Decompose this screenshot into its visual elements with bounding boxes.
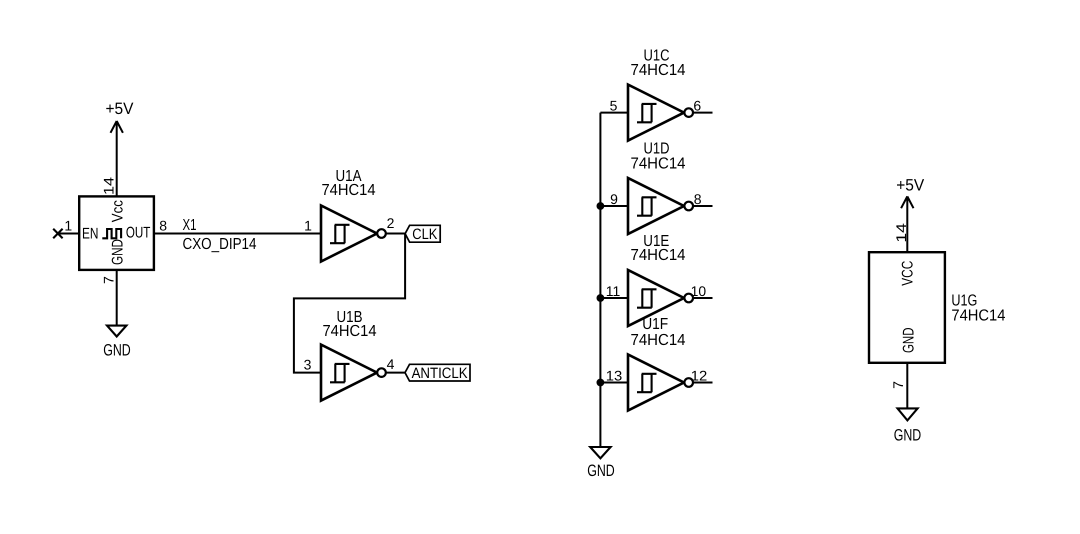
schmitt hysteresis mark U1B <box>330 364 350 382</box>
wire U1B output to ANTICLK <box>386 372 405 374</box>
svg-text:11: 11 <box>606 283 621 299</box>
svg-text:9: 9 <box>610 191 618 207</box>
inverter U1D <box>610 141 702 234</box>
svg-text:GND: GND <box>587 462 615 480</box>
wire U1A output to CLK <box>386 233 405 235</box>
wire U1E output stub <box>693 297 713 299</box>
svg-text:1: 1 <box>64 217 72 233</box>
svg-text:6: 6 <box>693 97 701 113</box>
wire stub to U1E input <box>600 297 628 299</box>
schmitt hysteresis mark U1F <box>637 374 657 392</box>
svg-text:Vcc: Vcc <box>109 200 126 222</box>
inverter U1E <box>606 233 707 326</box>
oscillator waveform glyph <box>102 229 121 238</box>
svg-text:+5V: +5V <box>896 176 924 194</box>
svg-text:EN: EN <box>82 226 99 243</box>
svg-text:5: 5 <box>610 97 618 113</box>
svg-text:4: 4 <box>387 356 395 372</box>
power arrow <box>901 196 913 252</box>
junction at U1D input <box>597 202 605 210</box>
svg-text:GND: GND <box>894 426 922 444</box>
junction at U1F input <box>597 379 605 387</box>
svg-text:GND: GND <box>900 328 917 354</box>
svg-text:GND: GND <box>109 239 126 265</box>
no-connect X on pin 1 <box>53 229 62 238</box>
inverter U1B <box>304 309 395 401</box>
svg-text:8: 8 <box>159 218 167 234</box>
global label CLK <box>405 225 440 243</box>
svg-text:8: 8 <box>694 191 702 207</box>
svg-text:X1: X1 <box>183 217 197 234</box>
wire U1C output stub <box>693 112 713 114</box>
svg-text:74HC14: 74HC14 <box>631 62 686 79</box>
svg-text:ANTICLK: ANTICLK <box>412 365 468 382</box>
svg-text:74HC14: 74HC14 <box>631 332 686 349</box>
svg-text:GND: GND <box>103 341 131 359</box>
oscillator X1 box <box>79 196 154 270</box>
svg-text:OUT: OUT <box>126 225 151 242</box>
svg-text:14: 14 <box>893 223 909 243</box>
output inversion bubble U1C <box>684 108 693 117</box>
ground symbol (right) <box>894 408 922 444</box>
wire stub to U1C input <box>600 112 628 114</box>
svg-text:+5V: +5V <box>106 100 134 118</box>
inverter U1C <box>610 48 702 141</box>
vertical bus wire for unused gates <box>599 113 601 447</box>
pin 7 wire to ground <box>116 270 118 326</box>
svg-text:14: 14 <box>100 177 116 195</box>
ground symbol (left) <box>103 326 131 360</box>
svg-text:1: 1 <box>304 218 312 234</box>
wire stub to U1F input <box>600 382 628 384</box>
wire X1 OUT to U1A input <box>154 233 321 235</box>
svg-text:2: 2 <box>387 215 395 231</box>
schmitt hysteresis mark U1A <box>330 225 350 243</box>
svg-text:12: 12 <box>691 367 708 383</box>
output inversion bubble U1B <box>377 368 386 377</box>
schmitt hysteresis mark U1C <box>637 104 657 122</box>
pin 7 wire to ground (right) <box>906 363 908 409</box>
svg-text:74HC14: 74HC14 <box>631 247 686 264</box>
pin 1 EN wire <box>58 233 79 235</box>
wire stub to U1D input <box>600 205 628 207</box>
ground symbol (middle) <box>587 447 615 480</box>
wire CLK node down to U1B input <box>294 234 405 373</box>
svg-text:10: 10 <box>691 283 707 299</box>
power unit U1G box <box>869 252 1005 363</box>
svg-text:7: 7 <box>890 381 906 389</box>
svg-text:VCC: VCC <box>900 261 917 286</box>
power +5V (right) <box>896 176 924 252</box>
schmitt hysteresis mark U1E <box>637 289 657 307</box>
output inversion bubble U1D <box>684 202 693 211</box>
global label ANTICLK <box>405 364 470 382</box>
junction at U1E input <box>597 294 605 302</box>
inverter U1F <box>606 316 708 411</box>
svg-text:13: 13 <box>606 367 623 383</box>
power +5V (left) <box>106 100 134 196</box>
svg-text:7: 7 <box>101 276 117 284</box>
svg-text:74HC14: 74HC14 <box>323 323 377 340</box>
svg-text:74HC14: 74HC14 <box>951 308 1005 325</box>
wire U1F output stub <box>693 382 713 384</box>
inverter U1A <box>304 168 395 262</box>
svg-text:U1F: U1F <box>642 316 668 333</box>
svg-text:74HC14: 74HC14 <box>631 155 686 172</box>
output inversion bubble U1E <box>684 294 693 303</box>
svg-text:CXO_DIP14: CXO_DIP14 <box>183 236 257 253</box>
output inversion bubble U1A <box>377 229 386 238</box>
power arrow <box>111 121 123 196</box>
svg-text:3: 3 <box>304 357 312 373</box>
svg-text:CLK: CLK <box>412 226 437 243</box>
schmitt hysteresis mark U1D <box>637 197 657 215</box>
svg-text:74HC14: 74HC14 <box>322 182 376 199</box>
wire U1D output stub <box>693 205 713 207</box>
output inversion bubble U1F <box>684 378 693 387</box>
